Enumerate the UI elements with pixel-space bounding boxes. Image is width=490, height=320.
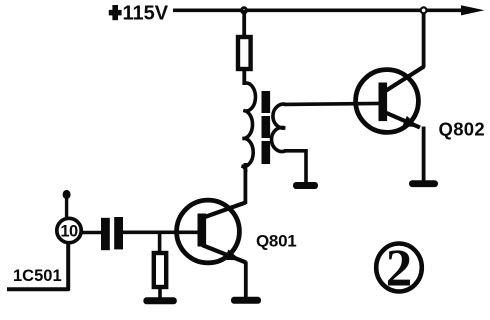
wire: rail arrowhead	[461, 5, 485, 15]
terminal 10 circle	[57, 218, 81, 242]
wire: secondary bottom lead to ground	[284, 151, 306, 182]
svg-text:115V: 115V	[123, 3, 169, 25]
wire: Q802 emitter down to ground	[422, 127, 426, 182]
ground (transformer secondary)	[293, 182, 318, 189]
+115V supply label	[109, 3, 169, 25]
wire: primary coil bottom to Q801 collector	[243, 163, 247, 204]
svg-text:Q802: Q802	[439, 119, 485, 140]
inductor T1 primary winding	[242, 83, 256, 172]
resistor R2 (base bias)	[154, 253, 166, 287]
wire: stub above terminal 10	[65, 196, 68, 217]
wire: secondary top lead to Q802 base	[284, 103, 381, 104]
ground (Q801 emitter)	[231, 297, 261, 304]
transistor Q802 emitter stroke with arrow	[383, 112, 420, 128]
wire: R2 to ground	[158, 287, 162, 298]
node: stub terminal dot	[63, 190, 71, 199]
svg-text:10: 10	[60, 223, 78, 241]
wire: capacitor to Q801 base	[122, 231, 202, 235]
inductor T1 secondary winding	[272, 104, 286, 151]
capacitor C1 coupling	[101, 217, 123, 250]
transistor Q802 base bar	[379, 83, 388, 122]
transistor Q801 emitter stroke with arrow	[202, 245, 246, 263]
node: open junction on rail	[421, 7, 427, 13]
transistor Q801 base bar	[198, 214, 207, 247]
ground (Q802 emitter)	[409, 180, 438, 187]
wire: rail junction down to R1	[242, 10, 246, 37]
transistor Q802 collector stroke	[383, 67, 424, 93]
wire: terminal 10 down-left to IC501	[7, 243, 68, 289]
wire: terminal circle to capacitor	[81, 231, 102, 235]
svg-text:Q801: Q801	[256, 232, 296, 251]
wire: Q801 emitter down to ground	[244, 262, 248, 298]
node: junction of rail and R1 branch	[240, 6, 248, 14]
ground (R2)	[143, 297, 176, 304]
transformer T1 core	[262, 91, 271, 164]
resistor R1 (collector load)	[238, 37, 251, 69]
svg-text:2: 2	[386, 240, 413, 298]
transistor Q802 circle	[356, 70, 419, 133]
wire: R1 to primary coil	[242, 69, 246, 85]
figure number 2 circle	[376, 244, 422, 292]
wire: base junction down to R2	[158, 231, 162, 253]
transistor Q801 circle	[177, 200, 240, 263]
transistor Q801 collector stroke	[202, 203, 246, 219]
wire: +115V rail	[173, 9, 468, 13]
svg-text:1C501: 1C501	[13, 267, 62, 285]
wire: rail junction down to Q802 collector	[422, 10, 426, 68]
